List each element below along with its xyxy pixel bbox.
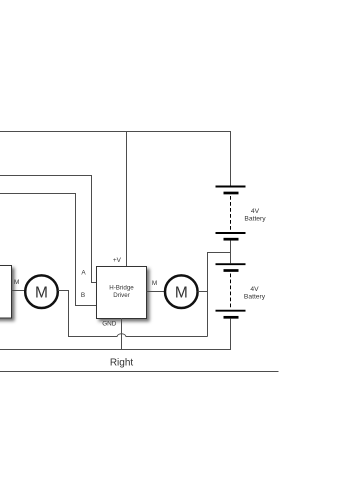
motor M1	[25, 275, 58, 308]
wire U1.M to motor M1	[12, 290, 26, 292]
wire M2 return	[198, 291, 208, 293]
svg-text:M: M	[152, 280, 157, 287]
label BT1 value	[244, 208, 266, 223]
svg-text:M: M	[14, 279, 19, 286]
svg-text:+V: +V	[113, 257, 122, 264]
wire +V rail top	[0, 132, 231, 187]
wire A	[0, 176, 97, 283]
wire +V drop to U2	[126, 132, 128, 268]
svg-text:B: B	[81, 292, 85, 299]
battery BT2	[216, 264, 246, 317]
svg-text:Right: Right	[110, 358, 134, 369]
separator line	[0, 371, 279, 373]
wire GND drop	[121, 318, 123, 350]
wire B	[0, 194, 97, 306]
svg-text:Battery: Battery	[244, 294, 266, 301]
wire junction vertical (motor returns to battery mid tap)	[208, 253, 231, 337]
label BT2 value	[244, 286, 266, 301]
wire battery negative to ground rail	[230, 319, 232, 350]
svg-text:Driver: Driver	[113, 292, 130, 299]
H-bridge driver U2	[97, 267, 147, 319]
motor M2	[165, 275, 198, 308]
svg-text:H-Bridge: H-Bridge	[109, 285, 134, 292]
wire U2.M to motor M2	[147, 291, 165, 293]
svg-text:Battery: Battery	[244, 216, 266, 223]
wire M1 return (down and along bottom, hop over GND wire)	[58, 291, 208, 337]
svg-text:GND: GND	[102, 321, 117, 328]
svg-text:4V: 4V	[251, 208, 260, 215]
svg-text:M: M	[35, 284, 48, 301]
battery BT1	[216, 187, 246, 240]
svg-text:4V: 4V	[250, 286, 259, 293]
svg-text:M: M	[175, 284, 188, 301]
wire between batteries	[230, 241, 232, 264]
wire ground rail	[0, 349, 231, 351]
H-bridge driver U1 (left, partial)	[0, 266, 12, 319]
svg-text:A: A	[81, 270, 86, 277]
